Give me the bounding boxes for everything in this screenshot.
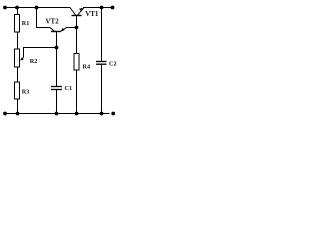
node R3 bottom junction xyxy=(16,112,20,116)
svg-text:VT2: VT2 xyxy=(46,18,60,26)
node VT1 base / R4 junction xyxy=(75,26,79,30)
svg-text:R4: R4 xyxy=(83,64,91,71)
wire VT2 collector to top rail xyxy=(37,8,51,28)
node C2 bottom junction xyxy=(100,112,104,116)
wire top rail right xyxy=(83,7,113,9)
svg-text:VT1: VT1 xyxy=(85,10,99,18)
wire bottom rail xyxy=(5,113,110,115)
capacitor C2 xyxy=(96,8,107,114)
svg-text:C2: C2 xyxy=(109,61,117,68)
wire top rail left xyxy=(5,7,71,9)
node R1 top junction xyxy=(15,6,19,10)
svg-text:R2: R2 xyxy=(30,58,38,65)
node C1 bottom junction xyxy=(55,112,59,116)
node input+ terminal xyxy=(3,6,7,10)
node output+ terminal xyxy=(111,6,115,10)
wire VT2 emitter to node xyxy=(66,27,77,29)
transistor VT1 xyxy=(70,8,84,28)
svg-text:R3: R3 xyxy=(22,89,30,96)
node R4 bottom junction xyxy=(75,112,79,116)
transistor VT2 xyxy=(50,28,67,48)
capacitor C1 xyxy=(51,48,62,114)
resistor R3 xyxy=(15,67,20,114)
node C2 top junction xyxy=(100,6,104,10)
resistor R1 xyxy=(15,8,20,50)
node input- terminal xyxy=(3,112,7,116)
svg-text:R1: R1 xyxy=(22,20,30,27)
svg-text:C1: C1 xyxy=(65,85,73,92)
node VT2 base / C1 junction xyxy=(55,46,59,50)
node VT2 collector junction xyxy=(35,6,39,10)
node output- terminal xyxy=(111,112,115,116)
resistor R4 xyxy=(74,28,79,114)
potentiometer R2 xyxy=(15,48,57,68)
